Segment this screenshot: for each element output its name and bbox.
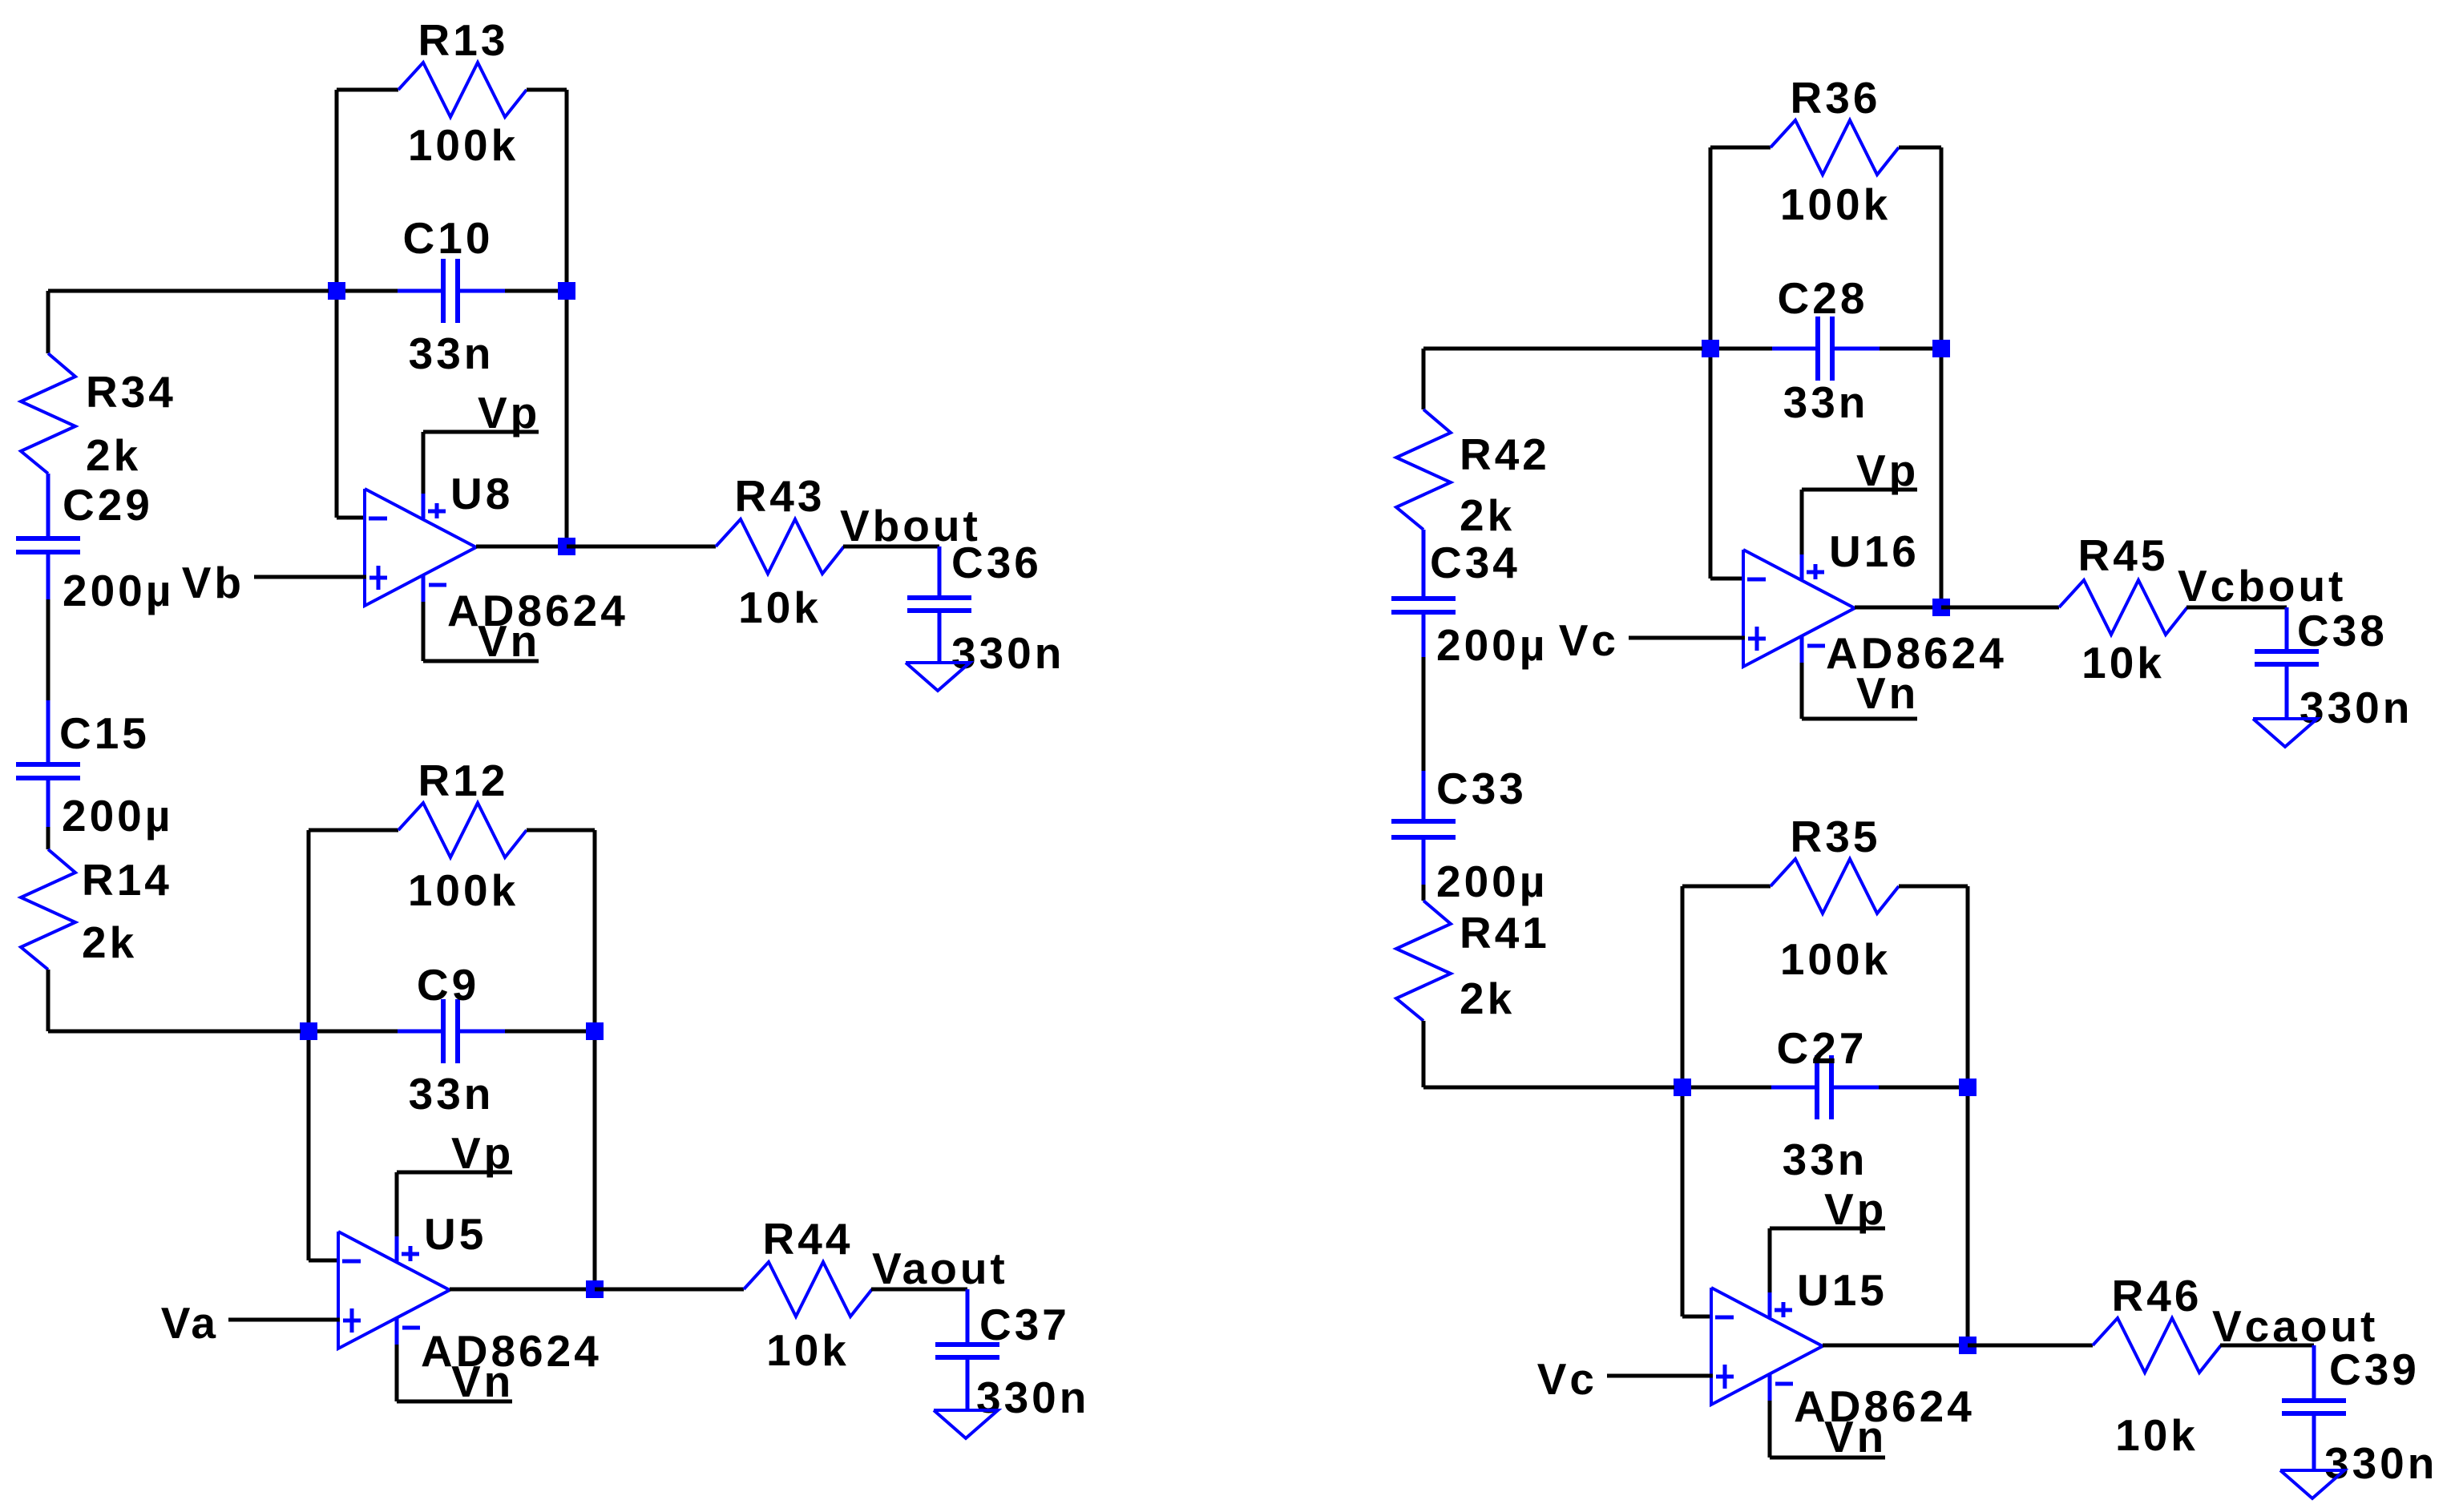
wire BR feedback top-left segment [1682, 885, 1771, 889]
wire left-chain bottom horizontal [48, 1030, 301, 1034]
wire TR feedback top-right segment [1899, 146, 1941, 150]
svg-text:Vn: Vn [1824, 1412, 1887, 1462]
wire right-chain mid [1422, 657, 1426, 771]
svg-text:R14: R14 [82, 855, 172, 905]
wire left-chain mid [46, 599, 50, 700]
capacitor C33 (200u) [1422, 771, 1426, 821]
wire TR cap-level right [1880, 347, 1941, 351]
wire left-chain to R14 [46, 827, 50, 849]
svg-text:Vn: Vn [451, 1357, 514, 1406]
capacitor C10 (feedback 33n) [398, 289, 442, 293]
svg-text:Vp: Vp [1856, 446, 1919, 495]
node TR output junction [1932, 599, 1950, 616]
svg-text:Vc: Vc [1537, 1354, 1597, 1404]
wire BL input Va [228, 1318, 340, 1322]
capacitor C37 (output 330n) [966, 1289, 970, 1345]
svg-text:Vp: Vp [478, 388, 540, 437]
op-amp U8 inverting mark [369, 517, 387, 521]
wire TL cap-level right [505, 289, 567, 293]
op-amp U5 inverting mark [342, 1260, 361, 1264]
wire right-chain top vertical [1422, 349, 1426, 409]
svg-text:R46: R46 [2112, 1271, 2203, 1320]
svg-text:C38: C38 [2297, 606, 2388, 655]
node BR feedback-right junction [1959, 1079, 1977, 1096]
capacitor C29 (200u) [46, 474, 50, 538]
wire right-chain to R41 [1422, 885, 1426, 901]
capacitor C27 (feedback 33n) [1771, 1086, 1815, 1090]
wire TL cap-level left [337, 289, 398, 293]
resistor R45 (output 10k) [2059, 580, 2187, 635]
capacitor C34 (200u) [1422, 530, 1426, 599]
resistor R42 (2k) [1396, 409, 1451, 530]
svg-text:100k: 100k [408, 865, 519, 915]
capacitor C9 (feedback 33n) [398, 1030, 442, 1034]
op-amp U16 V+ power stub [1800, 553, 1804, 579]
node TR feedback-left junction [1702, 340, 1719, 357]
node BR feedback-left junction [1674, 1079, 1691, 1096]
capacitor C28 (feedback 33n) [1772, 347, 1816, 351]
wire TR output to junction [1855, 606, 1941, 610]
wire BL right vertical [593, 830, 597, 1289]
svg-text:R36: R36 [1791, 73, 1881, 123]
svg-text:U15: U15 [1797, 1265, 1888, 1315]
svg-text:U5: U5 [424, 1209, 487, 1259]
svg-text:Va: Va [161, 1298, 219, 1348]
svg-text:R42: R42 [1460, 429, 1550, 479]
svg-text:C34: C34 [1430, 538, 1520, 587]
wire left-chain bottom vertical [46, 970, 50, 1031]
svg-text:Vc: Vc [1559, 615, 1619, 665]
wire BR cap-level left [1682, 1086, 1772, 1090]
svg-text:2k: 2k [1460, 974, 1515, 1023]
wire BL inverting-input horizontal [309, 1259, 340, 1263]
wire BR output to resistor [1968, 1344, 2093, 1348]
op-amp U16 V- mark [1807, 644, 1825, 648]
svg-text:200µ: 200µ [63, 566, 174, 615]
op-amp U16 V- power stub [1800, 635, 1804, 664]
wire TR Vp rail [1802, 488, 1917, 492]
wire TR left vertical [1709, 147, 1713, 579]
svg-text:R44: R44 [763, 1214, 854, 1264]
op-amp U5 V+ power stub [395, 1235, 399, 1261]
svg-text:C15: C15 [59, 708, 150, 758]
wire BR feedback top-right segment [1899, 885, 1968, 889]
svg-text:C36: C36 [951, 538, 1042, 587]
wire BR Vn rail [1768, 1401, 1772, 1458]
svg-text:R34: R34 [86, 367, 176, 417]
op-amp U8 V- power stub [422, 575, 426, 603]
ground below C39 [2280, 1470, 2344, 1498]
svg-text:C37: C37 [979, 1300, 1070, 1349]
svg-text:U8: U8 [450, 469, 513, 518]
svg-text:R45: R45 [2078, 530, 2169, 580]
capacitor C15 (200u) [46, 700, 50, 764]
svg-text:R12: R12 [418, 756, 509, 805]
wire BL output net segment [871, 1288, 967, 1292]
svg-text:200µ: 200µ [1436, 620, 1548, 670]
op-amp U5 non-inverting mark [343, 1319, 361, 1323]
wire TL right vertical [565, 90, 569, 546]
op-amp U16 V+ mark [1814, 564, 1818, 579]
wire TL feedback top-right segment [527, 88, 567, 92]
svg-text:200µ: 200µ [1436, 857, 1548, 906]
op-amp U15 V- power stub [1768, 1373, 1772, 1402]
wire TR output to resistor [1941, 606, 2059, 610]
wire BR input Vc [1607, 1374, 1713, 1378]
svg-text:Vb: Vb [182, 558, 244, 607]
op-amp U8 V- mark [429, 583, 446, 587]
node BL feedback-right junction [586, 1022, 604, 1040]
op-amp U15 V+ power stub [1768, 1291, 1772, 1317]
svg-text:Vaout: Vaout [872, 1244, 1008, 1293]
svg-text:33n: 33n [1783, 377, 1869, 427]
svg-text:10k: 10k [2082, 638, 2165, 687]
op-amp U15 V- mark [1775, 1382, 1793, 1386]
capacitor C38 (output 330n) [2285, 607, 2289, 651]
resistor R44 (output 10k) [744, 1262, 872, 1316]
svg-text:R43: R43 [735, 471, 826, 521]
node TL feedback-right junction [558, 282, 575, 300]
wire BL left vertical [307, 830, 311, 1260]
wire BR inverting-input horizontal [1682, 1315, 1713, 1319]
svg-text:Vcaout: Vcaout [2212, 1301, 2378, 1351]
svg-text:2k: 2k [1460, 490, 1515, 540]
op-amp U8 V+ power stub [422, 492, 426, 518]
op-amp U15 inverting mark [1715, 1316, 1734, 1320]
resistor R35 (feedback 100k) [1771, 859, 1899, 913]
wire TR output net segment [2186, 606, 2287, 610]
wire TL output net segment [843, 545, 939, 549]
svg-text:C10: C10 [403, 213, 494, 263]
svg-text:33n: 33n [1783, 1135, 1868, 1184]
svg-text:U16: U16 [1829, 526, 1920, 576]
resistor R14 (2k) [21, 849, 75, 970]
node BR output junction [1959, 1337, 1977, 1354]
op-amp U5 triangle [338, 1232, 450, 1349]
op-amp U5 V+ mark [409, 1246, 413, 1261]
op-amp U8 non-inverting mark [369, 576, 387, 580]
wire TL feedback top-left segment [337, 88, 398, 92]
node BL feedback-left junction [300, 1022, 317, 1040]
resistor R41 (2k) [1396, 901, 1451, 1021]
svg-text:C29: C29 [63, 480, 153, 530]
svg-text:Vp: Vp [1824, 1184, 1887, 1234]
svg-text:R35: R35 [1791, 812, 1881, 861]
resistor R36 (feedback 100k) [1771, 120, 1899, 175]
wire TR input Vc [1629, 636, 1745, 640]
svg-text:330n: 330n [2324, 1438, 2437, 1488]
wire TL inverting-input horizontal [337, 516, 366, 520]
op-amp U15 V+ mark [1782, 1302, 1786, 1317]
svg-text:330n: 330n [951, 628, 1064, 678]
wire TL left vertical [335, 90, 339, 518]
svg-text:R41: R41 [1460, 908, 1550, 958]
wire BR output net segment [2220, 1344, 2314, 1348]
ground below C36 [906, 663, 970, 691]
wire TL input Vb [254, 575, 366, 579]
svg-text:10k: 10k [738, 583, 822, 632]
wire TR Vn rail [1800, 663, 1804, 719]
wire TL output to resistor [567, 545, 716, 549]
svg-text:C27: C27 [1777, 1023, 1867, 1073]
svg-text:Vcbout: Vcbout [2178, 561, 2346, 611]
wire TR inverting-input horizontal [1710, 577, 1745, 581]
wire BL feedback top-left segment [309, 829, 398, 833]
wire right-chain top horizontal [1423, 347, 1702, 351]
wire BL output to junction [450, 1288, 595, 1292]
svg-text:10k: 10k [766, 1325, 850, 1375]
node TR feedback-right junction [1932, 340, 1950, 357]
op-amp U5 V- mark [402, 1326, 420, 1330]
wire BL cap-level left [309, 1030, 398, 1034]
wire TR feedback top-left segment [1710, 146, 1771, 150]
op-amp U16 triangle [1743, 550, 1855, 667]
svg-text:100k: 100k [1780, 934, 1891, 984]
wire TL Vp rail [423, 430, 539, 434]
node TL feedback-left junction [328, 282, 345, 300]
wire BR left vertical [1681, 886, 1685, 1316]
resistor R46 (output 10k) [2093, 1318, 2221, 1373]
ground below C38 [2253, 719, 2317, 747]
svg-text:200µ: 200µ [62, 791, 173, 841]
wire right-chain bottom horizontal [1423, 1086, 1674, 1090]
node BL output junction [586, 1280, 604, 1298]
svg-text:33n: 33n [409, 329, 495, 378]
wire BR Vp rail [1770, 1227, 1885, 1231]
op-amp U16 inverting mark [1747, 578, 1766, 582]
wire TL Vn rail [422, 602, 426, 661]
svg-text:Vn: Vn [1856, 668, 1919, 718]
resistor R43 (output 10k) [716, 519, 844, 574]
wire BL cap-level right [505, 1030, 595, 1034]
op-amp U16 non-inverting mark [1748, 637, 1766, 641]
op-amp U8 V+ mark [435, 503, 439, 518]
wire BL feedback top-right segment [527, 829, 595, 833]
wire TR right vertical [1940, 147, 1944, 607]
wire BR cap-level right [1879, 1086, 1968, 1090]
svg-text:C39: C39 [2329, 1345, 2420, 1394]
op-amp U8 triangle [365, 489, 476, 606]
wire TR cap-level left [1710, 347, 1773, 351]
svg-text:2k: 2k [82, 917, 137, 967]
svg-text:Vn: Vn [478, 616, 540, 666]
resistor R34 (2k) [21, 353, 75, 474]
resistor R12 (feedback 100k) [398, 803, 527, 857]
wire left-chain top vertical [46, 291, 50, 353]
svg-text:10k: 10k [2115, 1410, 2199, 1460]
resistor R13 (feedback 100k) [398, 62, 527, 117]
svg-text:C33: C33 [1436, 764, 1527, 813]
op-amp U5 V- power stub [395, 1317, 399, 1346]
svg-text:330n: 330n [2300, 683, 2413, 732]
capacitor C36 (output 330n) [938, 546, 942, 598]
wire BR output to junction [1823, 1344, 1968, 1348]
svg-text:100k: 100k [1780, 179, 1891, 229]
svg-text:2k: 2k [86, 430, 141, 480]
ground below C37 [934, 1410, 998, 1438]
svg-text:100k: 100k [408, 120, 519, 170]
node TL output junction [558, 538, 575, 555]
wire right-chain bottom vertical [1422, 1021, 1426, 1087]
svg-text:Vp: Vp [451, 1128, 514, 1178]
wire BL output to resistor [595, 1288, 744, 1292]
op-amp U15 non-inverting mark [1716, 1375, 1734, 1379]
wire BR right vertical [1966, 886, 1970, 1345]
svg-text:R13: R13 [418, 15, 509, 65]
capacitor C39 (output 330n) [2312, 1345, 2316, 1401]
svg-text:33n: 33n [409, 1069, 495, 1119]
svg-text:C9: C9 [417, 960, 479, 1010]
wire TL output to junction [476, 545, 567, 549]
op-amp U15 triangle [1711, 1288, 1823, 1405]
wire left-chain top horizontal [48, 289, 329, 293]
svg-text:C28: C28 [1778, 273, 1868, 323]
wire BL Vp rail [397, 1171, 512, 1175]
wire BL Vn rail [395, 1345, 399, 1401]
